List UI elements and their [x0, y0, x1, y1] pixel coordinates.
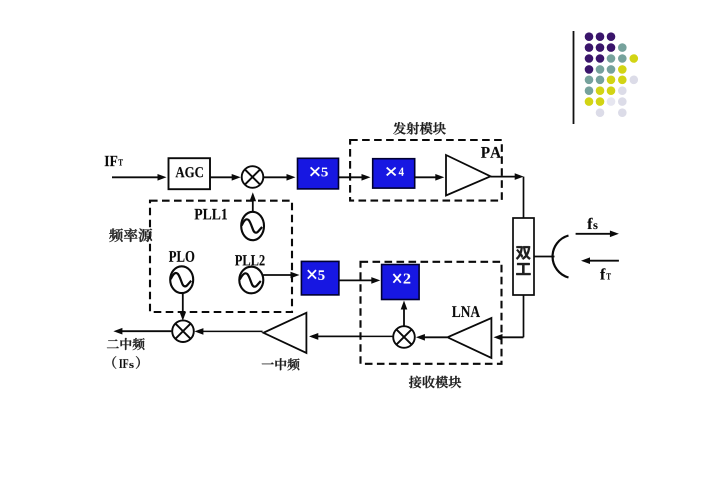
- wire IF amp to M3: [202, 330, 262, 332]
- mixer M3: [172, 320, 194, 342]
- receive module dashed box: [361, 262, 502, 364]
- wire M1 to multiplier x5a: [264, 176, 288, 178]
- logo dot matrix: [585, 32, 638, 117]
- label PA: [481, 147, 501, 158]
- output arrow second IF: [121, 330, 171, 332]
- wire x5a to x4: [339, 176, 363, 178]
- block AGC: [169, 158, 211, 189]
- wire node down to duplexer: [523, 177, 525, 218]
- label PLO: [169, 251, 194, 262]
- label LNA: [452, 306, 480, 317]
- arrow fT incoming: [589, 260, 619, 262]
- label fs: [587, 218, 597, 229]
- mixer M2: [393, 326, 415, 348]
- wire x4 to PA: [415, 176, 437, 178]
- antenna arc: [553, 236, 569, 278]
- node IFT input label: [105, 156, 123, 166]
- wire x5b to x2: [339, 279, 372, 281]
- multiplier x2: [382, 265, 420, 300]
- wire PLL1 to M1: [252, 200, 254, 211]
- mixer M1: [242, 166, 264, 188]
- label fT: [600, 268, 611, 279]
- amplifier LNA: [448, 318, 492, 358]
- label 频率源 (frequency source): [109, 228, 152, 242]
- amplifier PA: [446, 155, 491, 196]
- oscillator PLL1: [241, 212, 264, 240]
- label 一中频 (first IF): [262, 358, 300, 370]
- wire IFT to AGC: [112, 176, 159, 178]
- label PLL2: [235, 255, 265, 265]
- label 二中频 (second IF): [107, 338, 145, 350]
- wire M2 output to IF amp: [317, 335, 393, 337]
- amplifier first IF: [263, 313, 306, 353]
- wire duplexer down to LNA: [494, 295, 524, 341]
- label PLL1: [195, 209, 227, 220]
- multiplier x5 (receive): [301, 261, 339, 295]
- duplexer 双工 box: [513, 218, 534, 295]
- wire M2 up to x2: [403, 309, 405, 327]
- wire PLL2 to x5b: [263, 274, 291, 276]
- wire PA to duplexer node: [491, 176, 516, 178]
- label 接收模块 (receive module): [409, 376, 461, 388]
- frequency source dashed box: [150, 201, 292, 312]
- wire into IF amp: [317, 335, 360, 337]
- arrow fs outgoing: [576, 233, 611, 235]
- label 发射模块 (transmit module): [393, 122, 446, 134]
- wire AGC to mixer M1: [210, 176, 233, 178]
- transmit module dashed box: [350, 140, 502, 201]
- oscillator PLO: [170, 266, 193, 293]
- multiplier x4: [373, 159, 415, 188]
- oscillator PLL2: [239, 267, 263, 294]
- logo vertical bar: [573, 31, 575, 124]
- wire duplexer to antenna: [534, 256, 555, 258]
- label (IFs): [112, 356, 139, 369]
- wire LNA to mixer M2: [424, 336, 447, 338]
- wire PLO down to mixer M3: [182, 293, 184, 313]
- multiplier x5 (transmit): [298, 158, 339, 189]
